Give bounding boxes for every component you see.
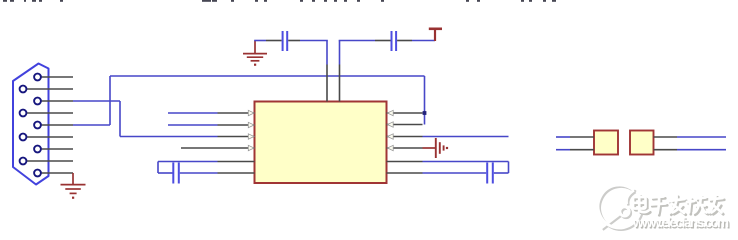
svg-text:www.elecfans.com: www.elecfans.com <box>632 215 729 230</box>
